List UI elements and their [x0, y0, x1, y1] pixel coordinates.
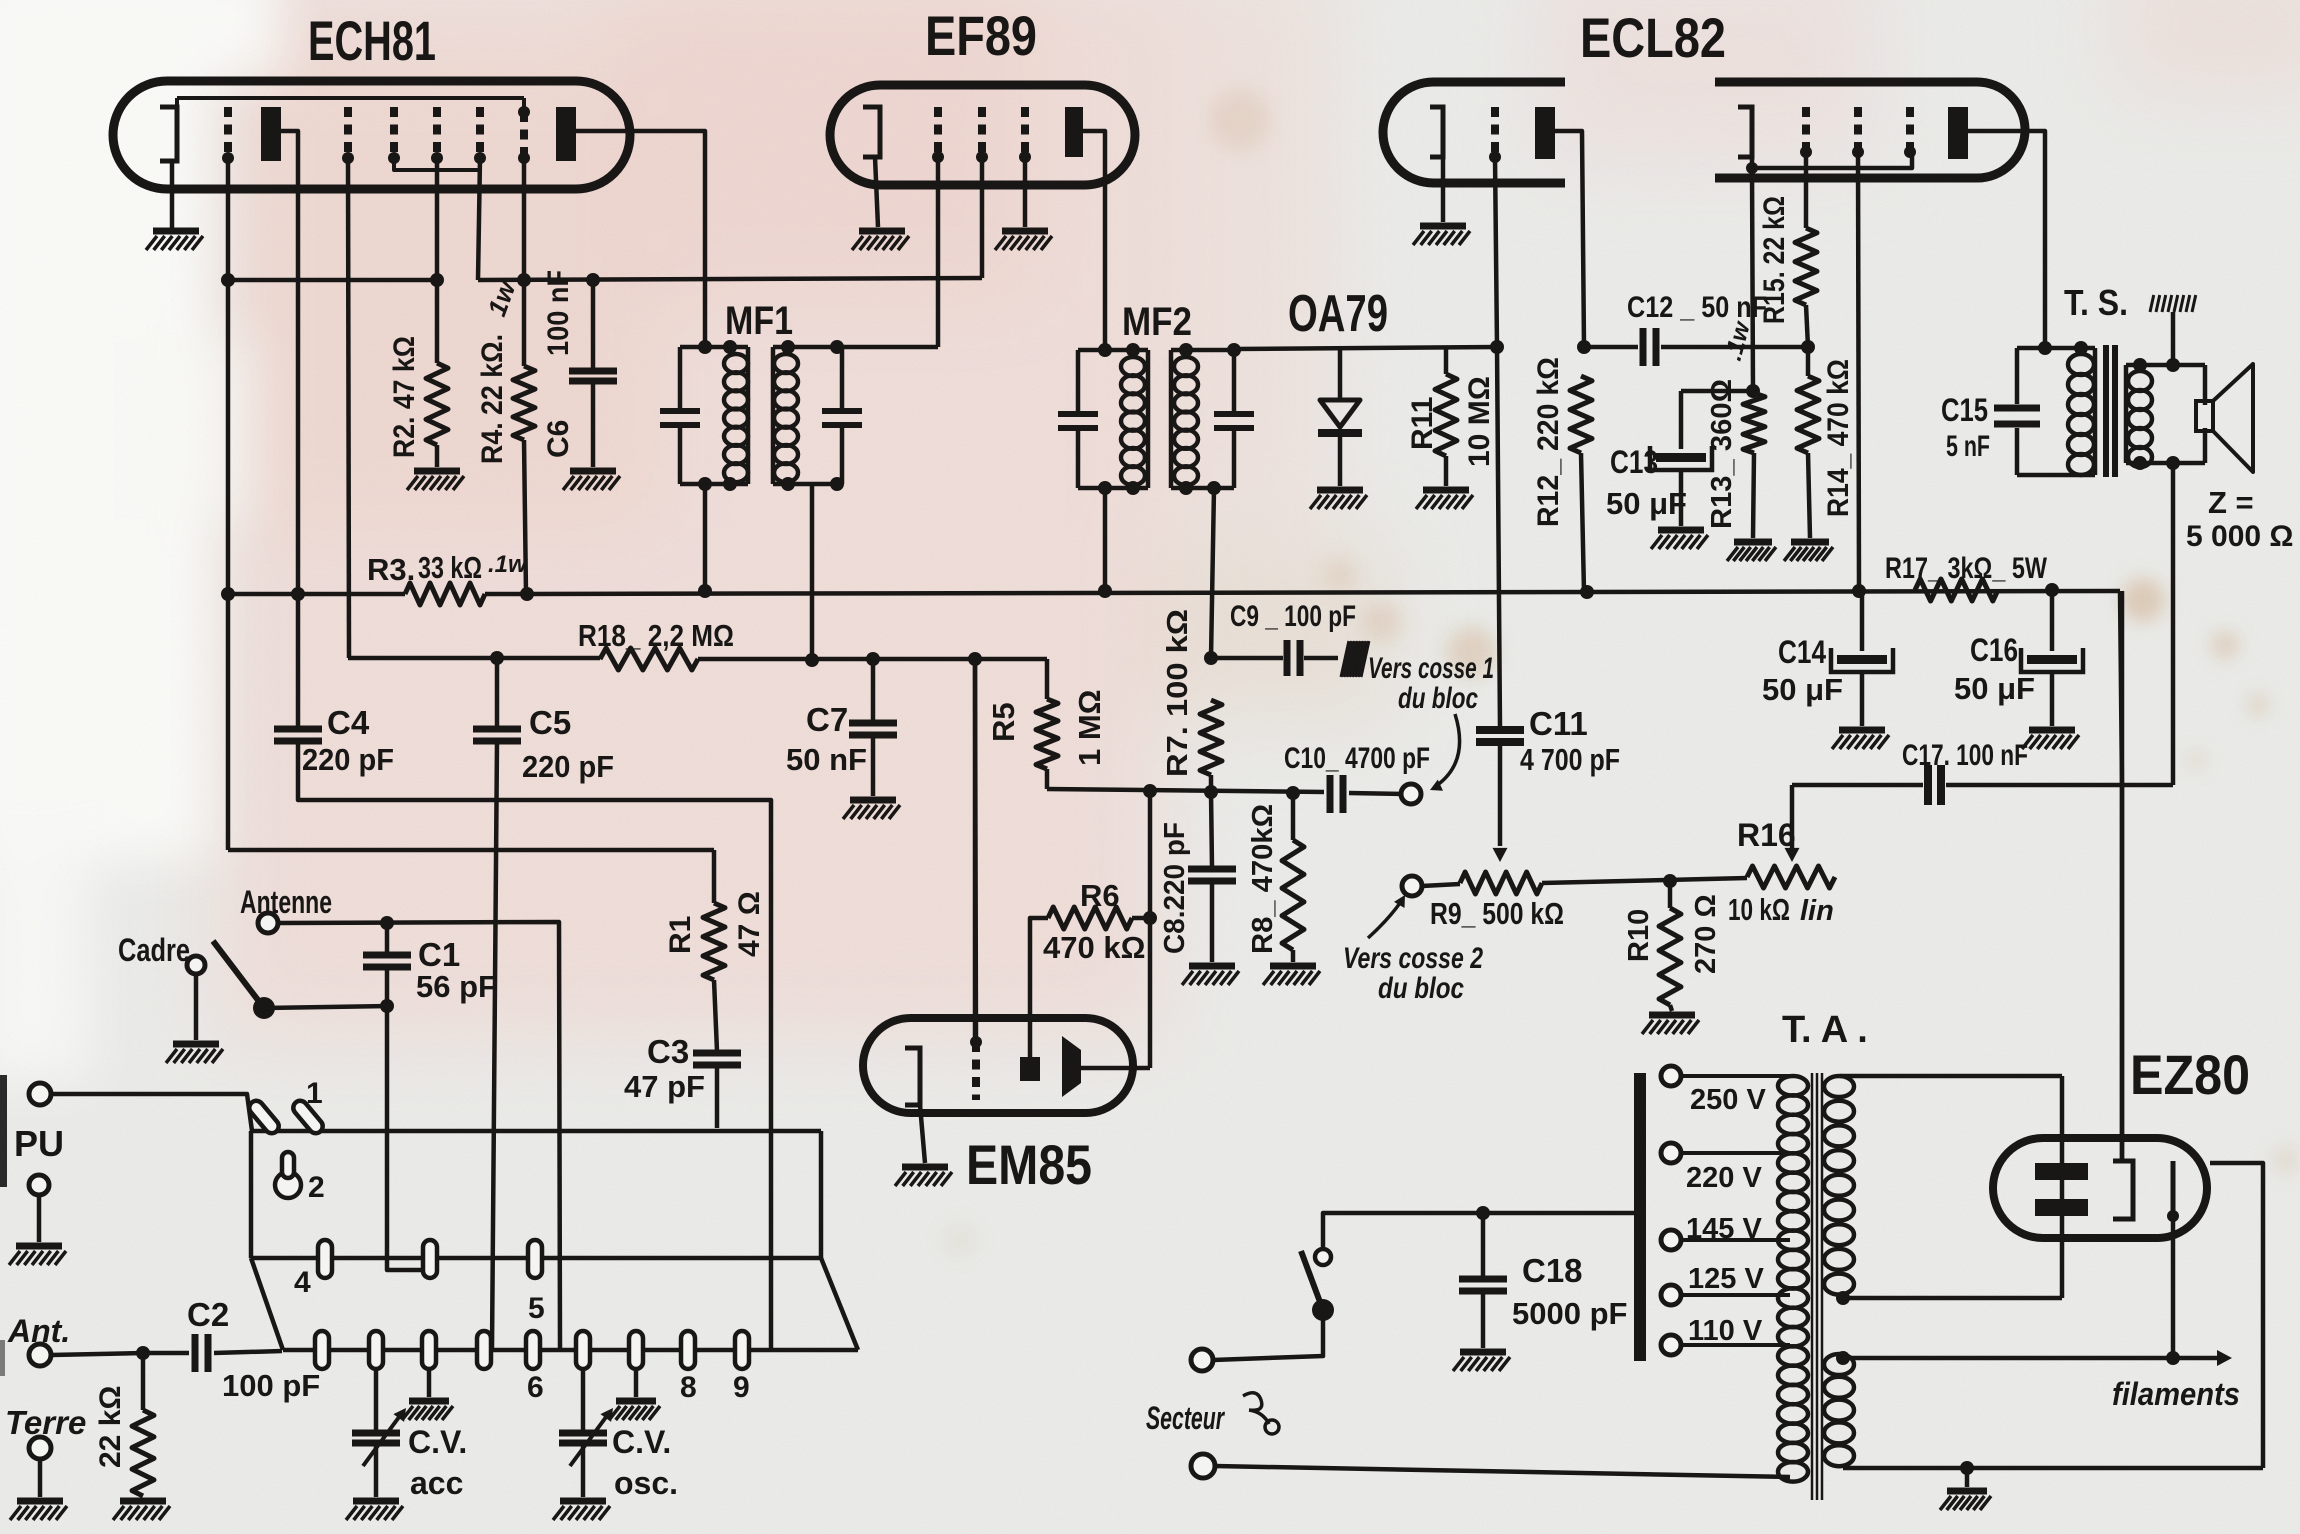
svg-text:.1w: .1w: [488, 551, 528, 578]
svg-text:270 Ω: 270 Ω: [1690, 894, 1722, 974]
svg-text:R1: R1: [664, 916, 697, 954]
svg-text:C12 _ 50 nF: C12 _ 50 nF: [1627, 291, 1767, 324]
svg-text:50 μF: 50 μF: [1606, 486, 1687, 521]
svg-text:33 kΩ: 33 kΩ: [418, 550, 482, 585]
svg-text:220 pF: 220 pF: [522, 749, 614, 784]
svg-text:C17. 100 nF: C17. 100 nF: [1902, 739, 2028, 772]
svg-text:125 V: 125 V: [1688, 1263, 1764, 1295]
svg-text:5 nF: 5 nF: [1946, 430, 1990, 463]
svg-text:R6: R6: [1080, 878, 1120, 913]
svg-text:5 000 Ω: 5 000 Ω: [2186, 520, 2293, 553]
svg-text:1: 1: [306, 1077, 323, 1110]
svg-text:250 V: 250 V: [1690, 1084, 1766, 1116]
svg-text:R10: R10: [1623, 909, 1655, 962]
svg-text:lin: lin: [1800, 895, 1834, 927]
svg-text:EF89: EF89: [925, 4, 1037, 67]
svg-text:R17_ 3kΩ_ 5W: R17_ 3kΩ_ 5W: [1885, 552, 2048, 585]
svg-text:R5: R5: [986, 702, 1021, 742]
svg-text:4 700 pF: 4 700 pF: [1520, 742, 1620, 777]
svg-text:ECL82: ECL82: [1580, 6, 1726, 69]
svg-text:T. S.: T. S.: [2064, 282, 2128, 323]
svg-text:MF1: MF1: [725, 299, 793, 343]
svg-text:C6: C6: [542, 420, 575, 458]
svg-text:220 V: 220 V: [1686, 1162, 1762, 1194]
svg-text:C16: C16: [1970, 632, 2018, 668]
svg-text:R2. 47 kΩ: R2. 47 kΩ: [388, 336, 421, 458]
svg-text:10 MΩ: 10 MΩ: [1463, 376, 1496, 467]
svg-text:1 MΩ: 1 MΩ: [1072, 689, 1107, 766]
svg-text:C.V.: C.V.: [408, 1424, 467, 1460]
svg-text:100 nF: 100 nF: [542, 270, 575, 356]
svg-text:filaments: filaments: [2112, 1376, 2240, 1412]
svg-text:osc.: osc.: [614, 1465, 678, 1501]
svg-text:Antenne: Antenne: [240, 884, 332, 920]
svg-text:C18: C18: [1522, 1252, 1583, 1289]
svg-text:du bloc: du bloc: [1398, 682, 1478, 715]
svg-text:2: 2: [308, 1171, 325, 1204]
svg-text:Vers cosse 1: Vers cosse 1: [1368, 652, 1494, 685]
svg-text:56 pF: 56 pF: [416, 969, 497, 1004]
svg-text:R9_ 500 kΩ: R9_ 500 kΩ: [1430, 896, 1564, 931]
svg-text:C10_ 4700 pF: C10_ 4700 pF: [1284, 742, 1430, 775]
svg-text:9: 9: [733, 1371, 750, 1404]
svg-text:C11: C11: [1529, 705, 1588, 742]
svg-text:10 kΩ: 10 kΩ: [1728, 892, 1790, 927]
svg-text:C.V.: C.V.: [612, 1424, 671, 1460]
svg-text:C5: C5: [529, 704, 571, 741]
svg-text:Z =: Z =: [2208, 485, 2254, 520]
svg-text:MF2: MF2: [1122, 300, 1192, 344]
svg-text:Secteur: Secteur: [1146, 1400, 1225, 1436]
svg-text:PU: PU: [14, 1123, 64, 1164]
svg-text:C2: C2: [187, 1296, 229, 1333]
svg-text:R16: R16: [1737, 817, 1796, 853]
svg-text:220 pF: 220 pF: [302, 742, 394, 777]
svg-text:47 pF: 47 pF: [624, 1069, 705, 1104]
svg-text:100 pF: 100 pF: [222, 1368, 320, 1403]
svg-text:110 V: 110 V: [1688, 1315, 1763, 1347]
svg-text:5: 5: [528, 1292, 545, 1325]
svg-text:4: 4: [294, 1266, 311, 1299]
svg-text:T. A .: T. A .: [1782, 1009, 1868, 1051]
svg-text:R11: R11: [1406, 397, 1439, 450]
svg-text:ECH81: ECH81: [308, 9, 436, 72]
svg-text:du bloc: du bloc: [1378, 972, 1464, 1005]
svg-text:R15. 22 kΩ: R15. 22 kΩ: [1758, 196, 1791, 324]
svg-text:R7. 100 kΩ: R7. 100 kΩ: [1162, 609, 1194, 777]
svg-text:50 μF: 50 μF: [1954, 671, 2035, 706]
svg-text:acc: acc: [410, 1465, 463, 1501]
svg-text:C15: C15: [1941, 392, 1988, 428]
svg-text:5000 pF: 5000 pF: [1512, 1296, 1627, 1331]
svg-text:22 kΩ: 22 kΩ: [94, 1386, 127, 1468]
svg-text:R4. 22 kΩ.: R4. 22 kΩ.: [476, 334, 509, 464]
svg-text:47 Ω: 47 Ω: [733, 891, 766, 957]
svg-text:C3: C3: [647, 1033, 689, 1070]
svg-text:C4: C4: [327, 704, 370, 741]
svg-text:Vers cosse 2: Vers cosse 2: [1343, 942, 1483, 975]
svg-text:R3.: R3.: [367, 552, 415, 587]
svg-text:6: 6: [527, 1371, 544, 1404]
svg-text:Terre: Terre: [5, 1404, 86, 1441]
svg-text:OA79: OA79: [1288, 285, 1388, 343]
svg-text:C9 _ 100 pF: C9 _ 100 pF: [1230, 600, 1356, 633]
svg-text:R8_ 470kΩ: R8_ 470kΩ: [1247, 804, 1279, 954]
svg-text:Cadre: Cadre: [118, 932, 190, 968]
svg-text:C7: C7: [806, 701, 848, 738]
svg-text:145 V: 145 V: [1686, 1213, 1762, 1245]
svg-text:EZ80: EZ80: [2130, 1043, 2250, 1106]
svg-text:C14: C14: [1778, 634, 1826, 670]
svg-text:C1: C1: [418, 936, 460, 973]
svg-text:50 μF: 50 μF: [1762, 672, 1843, 707]
svg-text:EM85: EM85: [966, 1133, 1092, 1196]
svg-text:C8.220 pF: C8.220 pF: [1159, 822, 1191, 954]
svg-text:C13: C13: [1610, 444, 1658, 480]
svg-text:8: 8: [680, 1371, 697, 1404]
svg-text:R14_ 470 kΩ: R14_ 470 kΩ: [1822, 359, 1855, 517]
svg-text:R12_ 220 kΩ: R12_ 220 kΩ: [1532, 357, 1565, 527]
svg-text:470 kΩ: 470 kΩ: [1043, 930, 1145, 965]
svg-text:50 nF: 50 nF: [786, 742, 867, 777]
